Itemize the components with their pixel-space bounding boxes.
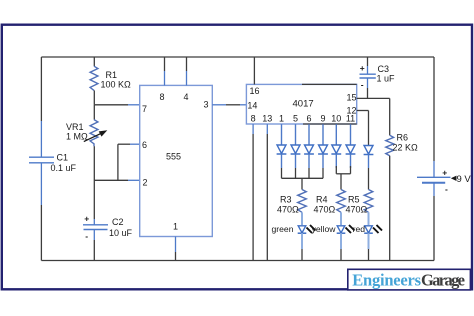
wire VR1 to C2 (93, 146, 95, 219)
svg-text:10 uF: 10 uF (109, 228, 133, 238)
battery BT1 (417, 177, 451, 182)
svg-text:+: + (442, 167, 447, 177)
wire bus D1-D4 to R3 (282, 178, 324, 189)
svg-text:3: 3 (204, 100, 209, 110)
wire junction to 555 pin 7 (94, 104, 139, 106)
wire 555 pin 4 stub (186, 57, 188, 85)
wire junction to VR1 (93, 105, 95, 120)
LED green (298, 212, 307, 260)
svg-text:5: 5 (293, 114, 298, 124)
svg-text:15: 15 (347, 93, 357, 103)
LED D5 (331, 124, 341, 174)
light arrows green (307, 225, 316, 233)
wire battery branch upper (433, 57, 435, 177)
capacitor C1 (29, 157, 54, 163)
svg-text:7: 7 (142, 104, 147, 114)
svg-text:1: 1 (279, 114, 284, 124)
svg-text:100 KΩ: 100 KΩ (101, 80, 132, 90)
svg-text:R3: R3 (280, 195, 292, 205)
light arrows red (373, 225, 382, 233)
wire left branch lower (40, 163, 42, 261)
label +9 V arrow (451, 176, 457, 181)
svg-text:11: 11 (346, 114, 355, 124)
svg-text:9 V: 9 V (457, 174, 472, 185)
svg-text:555: 555 (166, 152, 181, 162)
wire 4017 pin15 to R6 (357, 98, 390, 135)
svg-text:C2: C2 (112, 217, 124, 227)
wire bottom rail (41, 260, 434, 262)
wire 555 pin 1 to bottom rail (175, 237, 177, 261)
resistor R6 (386, 135, 394, 155)
potentiometer VR1 (84, 120, 108, 147)
svg-text:14: 14 (247, 101, 257, 111)
LED D3 (304, 124, 314, 178)
resistor R4 (337, 190, 346, 213)
IC U2 4017 box (246, 84, 356, 124)
svg-text:R1: R1 (106, 70, 118, 80)
svg-text:22 KΩ: 22 KΩ (393, 143, 419, 153)
svg-text:Garage: Garage (421, 270, 465, 289)
svg-text:0.1 uF: 0.1 uF (51, 163, 77, 173)
wire battery branch lower (433, 183, 435, 261)
svg-text:R5: R5 (348, 195, 360, 205)
wire C2 to bottom rail (93, 240, 95, 261)
wire R1 to junction (93, 90, 95, 104)
svg-text:6: 6 (142, 140, 147, 150)
light arrows yellow (346, 225, 355, 233)
wire 555 pin3 to 4017 pin14 (212, 104, 246, 106)
svg-text:green: green (272, 224, 294, 234)
wire top rail (41, 56, 434, 58)
svg-text:red: red (353, 224, 366, 234)
svg-text:470Ω: 470Ω (346, 205, 368, 215)
svg-text:2: 2 (143, 178, 148, 188)
svg-text:4017: 4017 (293, 99, 314, 110)
wire 4017 pin 8 to ground (252, 124, 254, 260)
resistor R3 (298, 190, 307, 213)
wire 4017 pin12 to LED7 (357, 111, 369, 146)
svg-text:C3: C3 (378, 64, 390, 74)
LED D1 (277, 124, 287, 178)
LED D2 (291, 124, 301, 178)
wire 4017 pin 13 to ground (266, 124, 268, 260)
LED D6 (346, 124, 356, 174)
wire pin2 net (94, 179, 139, 181)
svg-text:6: 6 (306, 114, 311, 124)
svg-text:+: + (84, 214, 89, 224)
wire 4017 pin16 to top rail (253, 57, 255, 84)
svg-text:16: 16 (250, 86, 260, 96)
svg-text:8: 8 (160, 92, 165, 102)
svg-text:13: 13 (262, 114, 272, 124)
svg-text:R4: R4 (316, 195, 328, 205)
LED red (364, 212, 373, 260)
svg-text:1: 1 (173, 222, 178, 232)
svg-text:8: 8 (251, 114, 256, 124)
svg-text:+: + (360, 63, 365, 73)
resistor R5 (364, 190, 373, 213)
wire left branch upper (40, 57, 42, 157)
svg-text:10: 10 (331, 114, 341, 124)
wire 4017 top edge right segment (302, 83, 357, 85)
logo EngineersGarage (348, 269, 471, 290)
svg-text:VR1: VR1 (66, 122, 84, 132)
op-amp U1 555 box (140, 85, 213, 236)
LED yellow (337, 212, 346, 260)
wire R6 to bottom rail (389, 156, 391, 261)
wire bus D5-D6 to R4 (336, 174, 350, 190)
svg-text:Engineers: Engineers (352, 270, 421, 289)
svg-text:4: 4 (184, 92, 189, 102)
capacitor C2 (83, 219, 108, 240)
capacitor C3 (360, 57, 376, 98)
svg-text:470Ω: 470Ω (314, 205, 336, 215)
wire R1 top (93, 57, 95, 66)
svg-text:-: - (85, 231, 88, 241)
svg-text:-: - (445, 184, 448, 194)
resistor R1 (90, 66, 98, 90)
svg-text:470Ω: 470Ω (277, 205, 299, 215)
svg-text:R6: R6 (397, 133, 409, 143)
LED D4 (318, 124, 328, 178)
svg-text:1 MΩ: 1 MΩ (66, 132, 88, 142)
svg-text:C1: C1 (57, 153, 69, 163)
wire pin6 net (118, 144, 140, 180)
svg-text:yellow: yellow (312, 224, 337, 234)
svg-text:-: - (361, 80, 364, 90)
wire 555 pin 8 stub (164, 57, 166, 85)
svg-text:1 uF: 1 uF (377, 74, 396, 84)
svg-text:9: 9 (320, 114, 325, 124)
LED D7 (364, 146, 374, 190)
wire 4017 bottom edge right segment (303, 123, 357, 125)
